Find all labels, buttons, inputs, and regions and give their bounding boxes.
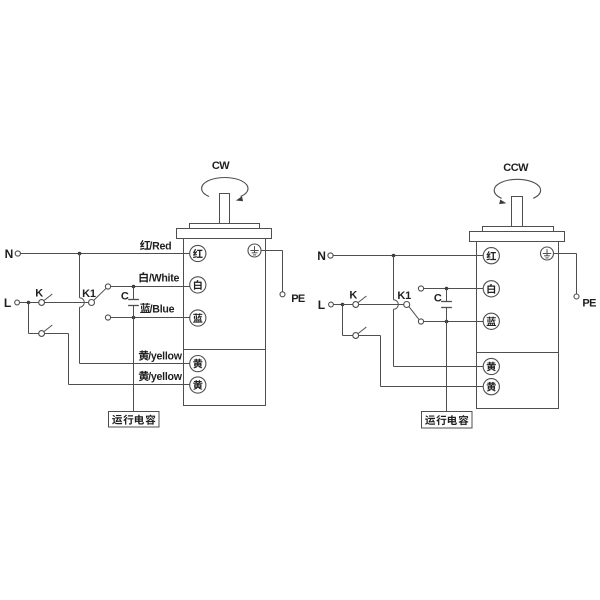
switch K1 common contact	[404, 302, 410, 308]
capacitor C top lead	[446, 289, 448, 302]
motor body	[477, 242, 559, 409]
switch K upper blade	[358, 296, 366, 303]
svg-text:/yellow: /yellow	[148, 351, 183, 363]
svg-text:L: L	[318, 298, 325, 312]
wire name label 黄/yellow	[139, 350, 149, 360]
motor terminal white circle	[483, 281, 499, 297]
run capacitor box 运行电容	[109, 412, 160, 428]
wire ground to PE	[554, 253, 577, 255]
wire L to junction	[333, 304, 342, 306]
terminal L open circle	[329, 302, 334, 307]
wire white throw to motor white terminal	[111, 286, 190, 288]
switch K1 blue throw contact	[418, 319, 423, 324]
switch K1 blade to blue throw	[409, 307, 419, 320]
motor end cap	[177, 229, 272, 239]
switch K1 blue throw contact	[105, 315, 110, 320]
switch K upper blade	[44, 294, 52, 301]
terminal char 黄	[193, 359, 202, 369]
motor terminal yellow1 circle	[483, 358, 499, 374]
svg-text:K: K	[349, 290, 357, 302]
motor body	[184, 239, 266, 406]
junction white/capacitor	[445, 287, 449, 291]
switch K upper contact	[343, 304, 353, 306]
wire name label 白/White	[140, 272, 148, 282]
wire name label 红/Red	[140, 240, 150, 250]
capacitor C plates	[128, 299, 139, 301]
switch K1 white throw contact	[418, 286, 423, 291]
svg-text:/Red: /Red	[149, 240, 171, 252]
terminal char 蓝	[193, 313, 202, 322]
wire K to K1 common	[359, 304, 404, 306]
capacitor C bottom lead down to run-capacitor box	[133, 306, 135, 412]
svg-text:K1: K1	[82, 288, 96, 300]
wire K to K1 common	[45, 302, 89, 304]
label char 行	[436, 415, 446, 425]
svg-text:K: K	[35, 288, 43, 300]
wire N to motor red terminal	[20, 253, 189, 255]
motor terminal blue circle	[483, 313, 499, 329]
wire blue throw to motor blue terminal	[111, 317, 190, 319]
svg-text:PE: PE	[291, 293, 305, 305]
label char 行	[123, 415, 133, 425]
ground symbol	[254, 246, 256, 253]
wire L junction down to K lower contact	[28, 303, 30, 334]
wire name label 黄/yellow	[139, 371, 149, 381]
terminal char 黄	[487, 362, 496, 372]
svg-text:K1: K1	[397, 290, 411, 302]
junction blue/capacitor	[132, 316, 136, 320]
switch K1 common contact	[89, 300, 95, 306]
junction blue/capacitor	[445, 320, 449, 324]
terminal char 蓝	[487, 317, 496, 326]
svg-text:CCW: CCW	[503, 162, 529, 174]
svg-text:/Blue: /Blue	[150, 303, 175, 315]
svg-text:PE: PE	[582, 297, 596, 309]
motor terminal white circle	[190, 277, 206, 293]
svg-text:N: N	[5, 247, 13, 261]
ground symbol	[546, 249, 548, 256]
motor terminal yellow2 circle	[190, 377, 206, 393]
motor terminal yellow2 circle	[483, 379, 499, 395]
switch K upper contact	[29, 302, 39, 304]
wire N to motor red terminal	[333, 255, 483, 257]
label char 容	[146, 415, 156, 425]
svg-text:N: N	[317, 249, 325, 263]
ground terminal circle	[248, 244, 261, 257]
motor rotation arrow ellipse	[202, 177, 248, 196]
svg-text:/yellow: /yellow	[148, 371, 183, 383]
switch K1 blade to white throw	[94, 288, 106, 300]
wire white throw to motor white terminal	[424, 288, 484, 290]
wire K lower to yellow2	[45, 333, 69, 335]
capacitor C top lead	[133, 287, 135, 300]
ground terminal circle	[541, 247, 554, 260]
terminal PE open circle	[574, 294, 579, 299]
terminal PE open circle	[280, 292, 285, 297]
label char 电	[135, 415, 144, 425]
motor terminal blue circle	[190, 310, 206, 326]
wire to motor yellow2 terminal	[69, 384, 190, 386]
junction at L	[341, 303, 345, 307]
terminal char 红	[486, 251, 496, 260]
wire blue throw to motor blue terminal	[424, 321, 484, 323]
motor terminal yellow1 circle	[190, 356, 206, 372]
terminal char 白	[487, 284, 495, 294]
junction on N wire	[78, 252, 82, 256]
wire to motor yellow1 terminal	[80, 363, 190, 365]
switch K lower blade	[358, 327, 366, 334]
wire to motor yellow1 terminal	[394, 366, 484, 368]
switch K lower contact	[353, 333, 359, 339]
motor rotation arrow ellipse	[494, 179, 540, 198]
capacitor C bottom lead down to run-capacitor box	[446, 308, 448, 412]
svg-text:/White: /White	[149, 273, 180, 285]
label char 运	[112, 415, 122, 425]
motor flange step	[190, 224, 260, 229]
wire name label 蓝/Blue	[140, 303, 150, 313]
wire junction down to yellow1 (with hop)	[393, 256, 395, 300]
terminal char 红	[193, 249, 203, 258]
wire ground to PE	[261, 250, 283, 252]
label char 运	[425, 415, 435, 425]
motor flange step	[483, 227, 554, 232]
terminal N open circle	[15, 251, 20, 256]
switch K1 white throw contact	[105, 284, 110, 289]
capacitor C plates	[441, 301, 452, 303]
terminal L open circle	[15, 300, 20, 305]
motor end cap	[470, 232, 565, 242]
junction on N wire	[392, 254, 396, 258]
motor body divider line	[477, 352, 559, 354]
motor body divider line	[184, 349, 266, 351]
terminal char 黄	[193, 380, 202, 390]
wire K lower to yellow2	[359, 335, 381, 337]
wire L to junction	[20, 302, 29, 304]
svg-text:C: C	[434, 292, 442, 304]
wire L junction down to K lower contact	[342, 305, 344, 336]
junction white/capacitor	[132, 285, 136, 289]
wire to motor yellow2 terminal	[381, 386, 484, 388]
motor terminal red circle	[190, 245, 206, 261]
switch K lower contact	[39, 331, 45, 337]
label char 电	[448, 415, 457, 425]
wire junction down to yellow1 (with hop)	[79, 254, 81, 298]
svg-text:L: L	[4, 296, 11, 310]
terminal char 黄	[487, 382, 496, 392]
motor terminal red circle	[483, 248, 499, 264]
switch K lower blade	[44, 325, 52, 332]
label char 容	[459, 415, 469, 425]
svg-text:CW: CW	[212, 160, 230, 172]
junction at L	[27, 301, 31, 305]
terminal N open circle	[328, 253, 333, 258]
motor shaft	[512, 197, 523, 227]
run capacitor box 运行电容	[422, 412, 473, 429]
svg-text:C: C	[121, 290, 129, 302]
terminal char 白	[194, 280, 202, 290]
motor shaft	[220, 194, 230, 224]
